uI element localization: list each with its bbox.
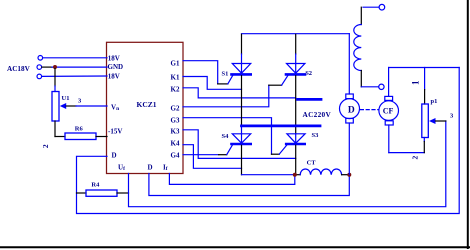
svg-text:D: D: [348, 106, 355, 116]
svg-text:S4: S4: [222, 133, 230, 140]
svg-text:GND: GND: [108, 63, 124, 71]
svg-text:G3: G3: [171, 116, 180, 124]
svg-text:3: 3: [450, 112, 454, 119]
svg-text:U1: U1: [62, 95, 70, 102]
svg-text:G1: G1: [171, 59, 180, 67]
svg-text:KCZ1: KCZ1: [137, 100, 157, 109]
svg-text:-15V: -15V: [108, 128, 122, 136]
svg-text:K4: K4: [171, 139, 180, 147]
svg-text:S3: S3: [312, 132, 320, 139]
svg-text:S1: S1: [222, 71, 229, 78]
svg-text:K3: K3: [171, 127, 180, 135]
svg-text:D: D: [112, 152, 117, 160]
svg-text:AC220V: AC220V: [303, 110, 332, 119]
svg-text:K2: K2: [171, 85, 180, 93]
svg-text:2: 2: [410, 155, 419, 159]
svg-text:Uf: Uf: [118, 163, 125, 172]
svg-text:1: 1: [411, 80, 421, 85]
svg-text:CF: CF: [383, 107, 394, 116]
svg-text:Vn: Vn: [111, 103, 119, 112]
svg-text:If: If: [163, 163, 168, 172]
svg-text:2: 2: [41, 144, 50, 148]
svg-text:R6: R6: [75, 125, 84, 132]
svg-text:3: 3: [78, 98, 82, 105]
svg-text:R4: R4: [91, 181, 100, 188]
svg-text:CT: CT: [307, 160, 317, 167]
svg-text:G4: G4: [171, 152, 180, 160]
svg-text:p1: p1: [431, 98, 438, 105]
svg-text:D: D: [148, 163, 153, 171]
svg-text:18V: 18V: [108, 72, 120, 80]
svg-text:G2: G2: [171, 104, 180, 112]
svg-text:18V: 18V: [108, 54, 120, 62]
svg-text:AC18V: AC18V: [7, 65, 31, 73]
svg-text:K1: K1: [171, 73, 180, 81]
svg-text:S2: S2: [305, 70, 312, 77]
